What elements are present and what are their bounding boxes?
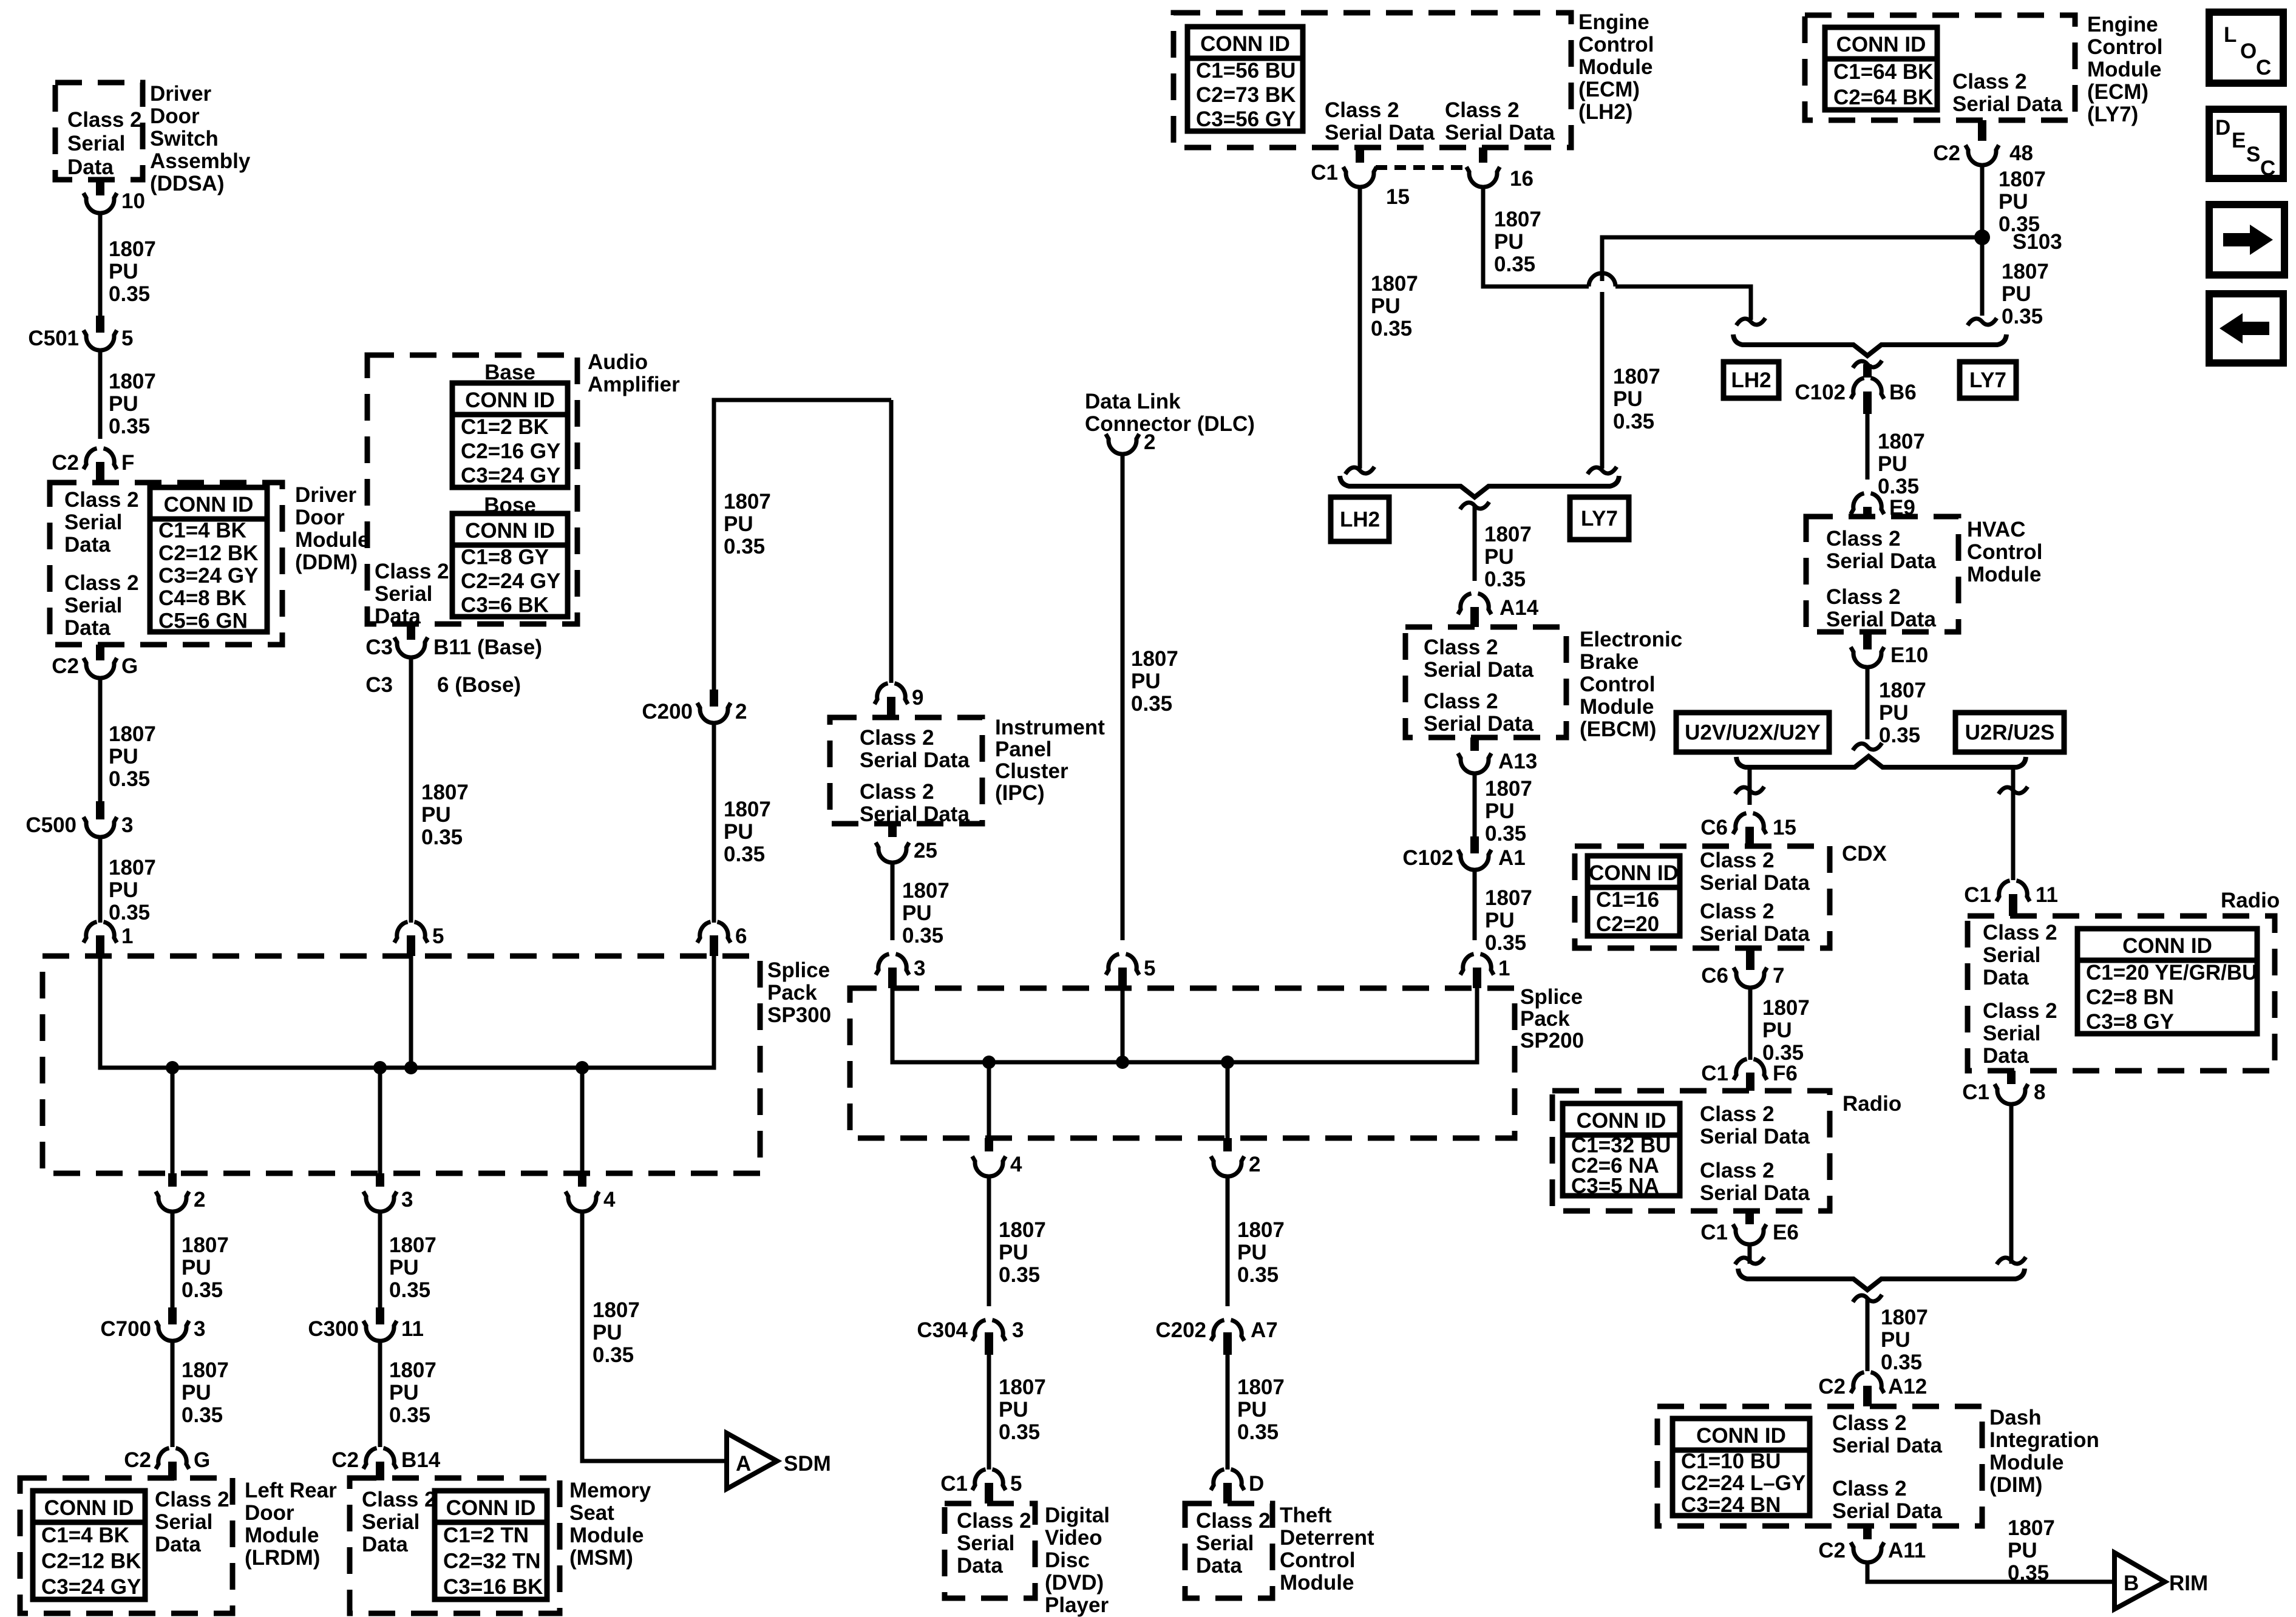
svg-text:0.35: 0.35 bbox=[182, 1278, 223, 1302]
svg-text:Data Link: Data Link bbox=[1085, 390, 1181, 413]
svg-text:1807: 1807 bbox=[1371, 272, 1418, 296]
svg-text:Module: Module bbox=[1989, 1451, 2063, 1474]
wire 1807 PU from DDM G to C500 bbox=[100, 679, 156, 802]
svg-text:Class 2: Class 2 bbox=[1196, 1509, 1271, 1533]
curl below left bus cusp bbox=[1460, 502, 1489, 509]
svg-text:4: 4 bbox=[1010, 1153, 1022, 1176]
wire from radio bus to C6 15 bbox=[1748, 767, 1752, 805]
svg-text:C1=56 BU: C1=56 BU bbox=[1196, 59, 1296, 83]
svg-text:Serial: Serial bbox=[155, 1510, 212, 1534]
svg-text:Pack: Pack bbox=[767, 981, 817, 1005]
svg-text:A11: A11 bbox=[1888, 1539, 1926, 1562]
svg-text:PU: PU bbox=[724, 512, 753, 536]
dashed link between pins 15 and 16 bbox=[1376, 165, 1468, 170]
wire 1807 PU from C202 to Theft Deterrent Module bbox=[1228, 1355, 1285, 1470]
svg-text:Data: Data bbox=[64, 533, 110, 557]
connector C202 pin A7 bbox=[1155, 1318, 1277, 1355]
svg-text:Module: Module bbox=[1280, 1571, 1354, 1595]
wire label 1807 PU above C200 bbox=[724, 490, 771, 558]
svg-text:A12: A12 bbox=[1888, 1375, 1927, 1398]
svg-text:Driver: Driver bbox=[295, 483, 357, 507]
pin 3 of SP300 bbox=[364, 1173, 413, 1212]
svg-text:0.35: 0.35 bbox=[724, 842, 765, 866]
svg-text:C2=24 L–GY: C2=24 L–GY bbox=[1681, 1471, 1805, 1495]
svg-text:3: 3 bbox=[914, 957, 925, 980]
svg-text:C2: C2 bbox=[52, 451, 79, 475]
wire hop over S103 branch bbox=[1589, 273, 1751, 320]
svg-text:C1: C1 bbox=[1964, 883, 1991, 907]
module DVD player bbox=[945, 1503, 1035, 1598]
svg-text:1807: 1807 bbox=[999, 1375, 1046, 1399]
svg-text:1: 1 bbox=[121, 924, 133, 948]
svg-text:PU: PU bbox=[1485, 909, 1515, 932]
svg-text:Cluster: Cluster bbox=[995, 759, 1068, 783]
svg-text:0.35: 0.35 bbox=[1371, 317, 1412, 341]
svg-text:C3=8 GY: C3=8 GY bbox=[2086, 1010, 2174, 1034]
svg-text:PU: PU bbox=[1131, 670, 1161, 693]
svg-text:15: 15 bbox=[1773, 816, 1796, 839]
svg-text:Door: Door bbox=[295, 506, 345, 529]
svg-text:1807: 1807 bbox=[1762, 996, 1810, 1020]
CONN ID table of DDM bbox=[150, 487, 267, 632]
pin 1 of SP300 bbox=[84, 922, 134, 956]
pin 25 of IPC bbox=[876, 824, 937, 863]
svg-text:2: 2 bbox=[1144, 430, 1155, 454]
svg-text:C1=2 TN: C1=2 TN bbox=[443, 1524, 529, 1547]
svg-text:Class 2: Class 2 bbox=[1826, 585, 1901, 609]
svg-text:7: 7 bbox=[1773, 964, 1784, 988]
svg-text:(ECM): (ECM) bbox=[1578, 78, 1640, 101]
pin C2 A11 of DIM bbox=[1818, 1526, 1926, 1562]
svg-text:Serial Data: Serial Data bbox=[1424, 712, 1533, 736]
svg-text:Module: Module bbox=[295, 528, 369, 552]
svg-text:PU: PU bbox=[593, 1321, 622, 1344]
svg-text:1807: 1807 bbox=[999, 1218, 1046, 1242]
svg-text:PU: PU bbox=[1237, 1241, 1267, 1264]
svg-text:1807: 1807 bbox=[1485, 886, 1532, 910]
svg-text:Module: Module bbox=[569, 1524, 644, 1547]
pin 4 of SP200 bbox=[973, 1138, 1023, 1176]
svg-text:C3=6 BK: C3=6 BK bbox=[461, 593, 549, 617]
module CDX bbox=[1575, 846, 1830, 948]
svg-text:3: 3 bbox=[1012, 1318, 1024, 1342]
svg-text:5: 5 bbox=[121, 327, 133, 350]
svg-text:0.35: 0.35 bbox=[1879, 724, 1920, 747]
svg-text:Audio: Audio bbox=[588, 350, 648, 374]
svg-text:C2=12 BK: C2=12 BK bbox=[41, 1550, 141, 1573]
connector C2 pin G of LRDM bbox=[124, 1448, 210, 1480]
svg-text:D: D bbox=[1249, 1472, 1264, 1496]
curl at pin15 wire end bbox=[1345, 467, 1374, 474]
svg-text:5: 5 bbox=[1010, 1472, 1022, 1496]
svg-text:0.35: 0.35 bbox=[724, 535, 765, 558]
svg-text:Serial Data: Serial Data bbox=[1826, 549, 1936, 573]
svg-text:LH2: LH2 bbox=[1731, 368, 1771, 392]
svg-text:C2: C2 bbox=[124, 1448, 151, 1472]
svg-text:LY7: LY7 bbox=[1581, 507, 1618, 531]
svg-text:Serial Data: Serial Data bbox=[1700, 1181, 1810, 1205]
svg-text:PU: PU bbox=[999, 1398, 1028, 1422]
svg-text:(EBCM): (EBCM) bbox=[1580, 717, 1656, 741]
svg-text:CONN ID: CONN ID bbox=[465, 519, 555, 543]
curl at S103 lower wire end bbox=[1968, 318, 1997, 325]
bus brace radio head unit bbox=[1736, 756, 2026, 767]
svg-text:C5=6 GN: C5=6 GN bbox=[158, 609, 248, 632]
svg-text:Class 2: Class 2 bbox=[155, 1488, 229, 1511]
svg-text:1807: 1807 bbox=[421, 781, 469, 804]
connector pin 9 of IPC bbox=[875, 683, 924, 717]
svg-text:PU: PU bbox=[724, 820, 753, 844]
svg-text:Class 2: Class 2 bbox=[1700, 900, 1775, 923]
svg-text:PU: PU bbox=[1881, 1328, 1911, 1352]
pin 4 of SP300 bbox=[566, 1173, 616, 1212]
svg-text:Class 2: Class 2 bbox=[1832, 1411, 1907, 1435]
svg-text:LY7: LY7 bbox=[1969, 368, 2006, 392]
curl at E10 wire end bbox=[1853, 743, 1882, 750]
CONN ID table of DIM bbox=[1673, 1419, 1810, 1517]
wire 1807 PU from C700 to LRDM bbox=[172, 1342, 229, 1447]
pin 10 of DDSA bbox=[84, 180, 145, 213]
pin C2 48 of ECM LY7 bbox=[1933, 120, 2033, 165]
svg-text:Disc: Disc bbox=[1045, 1548, 1090, 1572]
junction dot SP200 at pin4 branch bbox=[982, 1056, 996, 1069]
svg-text:PU: PU bbox=[1484, 545, 1514, 569]
svg-text:0.35: 0.35 bbox=[389, 1403, 430, 1427]
curl at CDX branch top bbox=[1735, 787, 1764, 794]
CONN ID table of Radio (left) bbox=[1563, 1103, 1680, 1198]
svg-text:3: 3 bbox=[401, 1188, 413, 1212]
svg-text:C2: C2 bbox=[52, 654, 79, 678]
svg-text:Class 2: Class 2 bbox=[1983, 921, 2057, 944]
svg-text:CDX: CDX bbox=[1842, 842, 1887, 866]
svg-text:Module: Module bbox=[2087, 58, 2161, 81]
wire 1807 PU from IPC pin 25 to SP200 pin 3 bbox=[892, 864, 949, 947]
connector C1 pin F6 of Radio bbox=[1701, 1059, 1798, 1091]
svg-text:1807: 1807 bbox=[1237, 1218, 1285, 1242]
pin 5 of SP200 bbox=[1106, 954, 1156, 988]
pin C6 7 of CDX bbox=[1701, 948, 1784, 988]
svg-text:E: E bbox=[2232, 129, 2246, 152]
wire 1807 PU from SP300 pin 2 to C700 bbox=[172, 1213, 229, 1307]
wire 1807 PU from HVAC E10 to radio bus bbox=[1867, 668, 1926, 747]
svg-text:Brake: Brake bbox=[1580, 650, 1639, 674]
junction dot SP300 at pin4 branch bbox=[576, 1061, 589, 1074]
curl below right bus cusp bbox=[1853, 361, 1882, 368]
label Data Link Connector (DLC) bbox=[1085, 390, 1255, 436]
svg-text:Control: Control bbox=[1967, 540, 2042, 564]
svg-text:0.35: 0.35 bbox=[109, 901, 150, 924]
svg-text:0.35: 0.35 bbox=[1237, 1263, 1279, 1287]
svg-text:C3=56 GY: C3=56 GY bbox=[1196, 107, 1296, 131]
svg-text:Serial Data: Serial Data bbox=[1445, 121, 1555, 144]
svg-text:E10: E10 bbox=[1890, 643, 1928, 667]
wire 1807 PU from DLC to SP200 pin 5 bbox=[1123, 455, 1178, 940]
svg-text:PU: PU bbox=[1999, 190, 2028, 214]
svg-text:Class 2: Class 2 bbox=[1445, 98, 1520, 122]
svg-text:SP200: SP200 bbox=[1520, 1029, 1584, 1053]
connector C200 pin 2 bbox=[642, 690, 747, 724]
svg-text:0.35: 0.35 bbox=[2002, 305, 2043, 328]
curl below DIM bus cusp bbox=[1853, 1295, 1882, 1302]
connector C304 pin 3 bbox=[917, 1318, 1024, 1355]
svg-text:C6: C6 bbox=[1700, 816, 1728, 839]
svg-text:C102: C102 bbox=[1795, 381, 1846, 404]
module ECM LY7 (Engine Control Module) bbox=[1805, 15, 2075, 120]
svg-text:Class 2: Class 2 bbox=[1325, 98, 1399, 122]
svg-text:PU: PU bbox=[109, 392, 138, 416]
bus brace LH2/LY7 to EBCM bbox=[1340, 476, 1619, 497]
connector C1 pin 5 of DVD player bbox=[940, 1470, 1022, 1503]
svg-text:PU: PU bbox=[1371, 294, 1401, 318]
curl at E6 wire end bbox=[1735, 1257, 1764, 1264]
svg-text:C1: C1 bbox=[1700, 1221, 1728, 1244]
wire 1807 PU from CDX 7 to radio F6 bbox=[1750, 989, 1810, 1065]
svg-text:Module: Module bbox=[1967, 563, 2041, 586]
svg-text:11: 11 bbox=[401, 1317, 424, 1341]
wire 1807 PU from SP300 pin 4 to SDM bbox=[582, 1213, 724, 1461]
svg-text:Class 2: Class 2 bbox=[1832, 1477, 1907, 1500]
SP300 internal bus bbox=[100, 956, 714, 1173]
svg-text:3: 3 bbox=[194, 1317, 205, 1341]
svg-text:Video: Video bbox=[1045, 1526, 1102, 1550]
svg-text:1807: 1807 bbox=[109, 856, 156, 880]
label Splice Pack SP300 bbox=[767, 958, 831, 1027]
svg-text:Class 2: Class 2 bbox=[1700, 1102, 1775, 1126]
CONN ID table of Audio Amplifier (Bose) bbox=[452, 514, 568, 617]
svg-text:Data: Data bbox=[957, 1554, 1003, 1578]
module Radio (right) bbox=[1968, 916, 2275, 1071]
svg-text:Seat: Seat bbox=[569, 1501, 614, 1525]
svg-text:Class 2: Class 2 bbox=[860, 780, 934, 804]
svg-text:PU: PU bbox=[182, 1381, 211, 1405]
wire 1807 PU from C300 to MSM bbox=[380, 1342, 436, 1447]
svg-text:E6: E6 bbox=[1773, 1221, 1799, 1244]
svg-text:PU: PU bbox=[1237, 1398, 1267, 1422]
svg-text:0.35: 0.35 bbox=[999, 1263, 1040, 1287]
svg-text:Engine: Engine bbox=[1578, 10, 1649, 34]
svg-text:Class 2: Class 2 bbox=[67, 108, 142, 132]
svg-text:C: C bbox=[2256, 56, 2271, 80]
svg-text:0.35: 0.35 bbox=[389, 1278, 430, 1302]
svg-text:C1: C1 bbox=[1962, 1080, 1989, 1104]
svg-text:0.35: 0.35 bbox=[109, 415, 150, 438]
bus brace to DIM bbox=[1738, 1269, 2025, 1290]
label box LH2 (right bus) bbox=[1724, 362, 1779, 398]
pin 6 of SP300 bbox=[698, 922, 747, 956]
svg-text:5: 5 bbox=[432, 924, 444, 948]
svg-text:Serial Data: Serial Data bbox=[1700, 871, 1810, 895]
label box LY7 (left bus) bbox=[1570, 497, 1629, 540]
wire 1807 PU from ECM LH2 pin 16 across bbox=[1483, 188, 1589, 286]
svg-text:PU: PU bbox=[182, 1256, 211, 1280]
off-page arrow A to SDM bbox=[727, 1433, 831, 1489]
svg-text:CONN ID: CONN ID bbox=[1696, 1424, 1786, 1448]
pin A13 of EBCM bbox=[1458, 737, 1538, 773]
connector C500 pin 3 bbox=[25, 801, 133, 837]
pin 2 of SP200 bbox=[1211, 1138, 1261, 1176]
label Base bbox=[484, 361, 535, 384]
svg-text:10: 10 bbox=[121, 189, 145, 213]
svg-text:Class 2: Class 2 bbox=[860, 726, 934, 750]
svg-text:0.35: 0.35 bbox=[2008, 1561, 2049, 1585]
splice pack SP200 box bbox=[850, 988, 1515, 1138]
svg-text:Class 2: Class 2 bbox=[1826, 527, 1901, 551]
svg-text:Serial Data: Serial Data bbox=[1424, 658, 1533, 682]
svg-text:Class 2: Class 2 bbox=[1983, 999, 2057, 1023]
svg-text:1807: 1807 bbox=[1878, 430, 1925, 453]
svg-text:1807: 1807 bbox=[389, 1233, 436, 1257]
svg-text:Serial Data: Serial Data bbox=[1826, 608, 1936, 631]
pin B11/6 of Audio Amplifier (C3) bbox=[365, 624, 542, 697]
wire 1807 PU from Audio Amplifier to SP300 pin 5 bbox=[411, 659, 469, 923]
svg-text:C501: C501 bbox=[28, 327, 79, 350]
svg-text:1807: 1807 bbox=[724, 490, 771, 514]
svg-text:1807: 1807 bbox=[389, 1358, 436, 1382]
svg-text:C300: C300 bbox=[308, 1317, 359, 1341]
svg-text:CONN ID: CONN ID bbox=[465, 388, 555, 412]
svg-text:C3=24 BN: C3=24 BN bbox=[1681, 1493, 1781, 1517]
connector C501 pin 5 bbox=[28, 316, 133, 350]
svg-text:1807: 1807 bbox=[1881, 1306, 1928, 1329]
legend box right arrow bbox=[2209, 205, 2284, 275]
svg-text:PU: PU bbox=[1494, 230, 1524, 254]
svg-text:G: G bbox=[194, 1448, 210, 1472]
svg-text:(IPC): (IPC) bbox=[995, 781, 1045, 805]
svg-text:Engine: Engine bbox=[2087, 13, 2158, 36]
svg-text:0.35: 0.35 bbox=[182, 1403, 223, 1427]
label DDM name bbox=[295, 483, 369, 574]
svg-text:C102: C102 bbox=[1402, 846, 1453, 870]
svg-text:C1=2 BK: C1=2 BK bbox=[461, 415, 549, 439]
svg-text:C1=64 BK: C1=64 BK bbox=[1833, 60, 1933, 84]
connector pin A14 of EBCM bbox=[1458, 594, 1539, 627]
SP200 internal bus bbox=[892, 988, 1477, 1138]
svg-text:Module: Module bbox=[1578, 55, 1652, 79]
svg-text:C3=24 GY: C3=24 GY bbox=[41, 1575, 141, 1599]
svg-text:C2=16 GY: C2=16 GY bbox=[461, 439, 560, 463]
svg-text:PU: PU bbox=[1879, 701, 1909, 725]
wire 1807 PU from C501 to DDM C2 pin F bbox=[100, 351, 156, 439]
svg-text:PU: PU bbox=[1878, 452, 1907, 476]
pin 16 of ECM LH2 bbox=[1467, 147, 1533, 191]
CONN ID table of Radio (right) bbox=[2077, 929, 2257, 1034]
label ECM LH2 name bbox=[1578, 10, 1654, 124]
svg-text:0.35: 0.35 bbox=[109, 767, 150, 791]
svg-text:Player: Player bbox=[1045, 1593, 1109, 1617]
svg-text:C3: C3 bbox=[365, 636, 393, 659]
connector C2 pin F of DDM bbox=[52, 449, 134, 483]
svg-text:1807: 1807 bbox=[109, 370, 156, 393]
svg-text:Radio: Radio bbox=[1843, 1092, 1901, 1116]
svg-text:A1: A1 bbox=[1498, 846, 1526, 870]
svg-text:Instrument: Instrument bbox=[995, 716, 1105, 739]
svg-text:U2R/U2S: U2R/U2S bbox=[1965, 721, 2055, 745]
label box U2R/U2S bbox=[1955, 713, 2064, 752]
svg-text:C6: C6 bbox=[1701, 964, 1728, 988]
wire 1807 PU from ECM LY7 pin 48 to S103 bbox=[1982, 166, 2046, 237]
label ECM LY7 name bbox=[2087, 13, 2162, 126]
off-page arrow B to RIM bbox=[2114, 1553, 2208, 1609]
svg-text:Electronic: Electronic bbox=[1580, 628, 1682, 651]
svg-text:1807: 1807 bbox=[1237, 1375, 1285, 1399]
svg-text:RIM: RIM bbox=[2169, 1571, 2208, 1595]
svg-text:Splice: Splice bbox=[1520, 985, 1583, 1009]
svg-text:PU: PU bbox=[1485, 799, 1515, 823]
svg-text:(LH2): (LH2) bbox=[1578, 100, 1632, 124]
svg-text:Data: Data bbox=[1983, 966, 2029, 989]
svg-text:C1: C1 bbox=[1701, 1062, 1728, 1085]
svg-text:1807: 1807 bbox=[2002, 260, 2049, 283]
junction dot SP300 at pin5 entry bbox=[404, 1061, 418, 1074]
svg-text:C4=8 BK: C4=8 BK bbox=[158, 586, 246, 610]
svg-text:C2=73 BK: C2=73 BK bbox=[1196, 83, 1296, 107]
wire 1807 PU from DDSA pin 10 to C501 bbox=[100, 214, 156, 317]
wire from S103 to left branch bbox=[1602, 237, 1982, 281]
connector pin E9 of HVAC bbox=[1851, 493, 1915, 520]
svg-text:Driver: Driver bbox=[150, 82, 212, 106]
svg-text:Control: Control bbox=[1580, 673, 1655, 696]
svg-text:C1=4 BK: C1=4 BK bbox=[41, 1524, 129, 1547]
label EBCM name bbox=[1580, 628, 1682, 741]
svg-text:Data: Data bbox=[362, 1533, 408, 1556]
svg-text:1807: 1807 bbox=[1485, 777, 1532, 801]
svg-text:1807: 1807 bbox=[182, 1358, 229, 1382]
svg-text:Panel: Panel bbox=[995, 737, 1051, 761]
svg-text:CONN ID: CONN ID bbox=[1200, 32, 1290, 56]
svg-text:Class 2: Class 2 bbox=[1424, 690, 1498, 713]
svg-text:C1: C1 bbox=[1311, 161, 1338, 185]
svg-text:1807: 1807 bbox=[593, 1298, 640, 1322]
svg-text:Control: Control bbox=[1578, 33, 1654, 56]
label DVD player name bbox=[1045, 1503, 1110, 1617]
curl at Radio 8 wire end bbox=[1997, 1257, 2026, 1264]
svg-text:Serial Data: Serial Data bbox=[1952, 92, 2062, 116]
svg-text:Serial: Serial bbox=[375, 582, 432, 606]
svg-text:1807: 1807 bbox=[1879, 679, 1926, 702]
svg-text:Door: Door bbox=[245, 1501, 294, 1525]
svg-text:Serial: Serial bbox=[64, 510, 122, 534]
svg-text:Serial: Serial bbox=[1196, 1531, 1254, 1555]
svg-text:PU: PU bbox=[109, 878, 138, 902]
svg-text:Theft: Theft bbox=[1280, 1503, 1332, 1527]
connector C6 pin 15 of CDX bbox=[1700, 813, 1796, 846]
CONN ID table of CDX bbox=[1588, 856, 1680, 936]
svg-text:2: 2 bbox=[735, 700, 747, 724]
svg-text:5: 5 bbox=[1144, 957, 1155, 980]
svg-text:PU: PU bbox=[2008, 1539, 2037, 1562]
module MSM (Memory Seat Module) bbox=[350, 1478, 560, 1613]
svg-text:Serial: Serial bbox=[1983, 1022, 2040, 1045]
svg-text:Serial Data: Serial Data bbox=[1325, 121, 1435, 144]
svg-text:PU: PU bbox=[999, 1241, 1028, 1264]
svg-text:Data: Data bbox=[155, 1533, 201, 1556]
svg-text:PU: PU bbox=[902, 901, 932, 925]
splice pack SP300 box bbox=[42, 956, 760, 1173]
svg-text:B: B bbox=[2124, 1571, 2139, 1595]
svg-text:11: 11 bbox=[2036, 883, 2058, 907]
svg-text:A: A bbox=[736, 1452, 751, 1476]
svg-text:Left Rear: Left Rear bbox=[245, 1479, 337, 1502]
connector C1 pin 11 of Radio (right) bbox=[1964, 805, 2058, 916]
module Radio (left) bbox=[1552, 1091, 1830, 1211]
connector DLC pin 2 bbox=[1106, 430, 1156, 454]
legend box LOC bbox=[2209, 12, 2283, 83]
svg-text:C2: C2 bbox=[1818, 1375, 1846, 1398]
svg-text:0.35: 0.35 bbox=[1484, 568, 1526, 591]
svg-text:B14: B14 bbox=[401, 1448, 441, 1472]
svg-text:PU: PU bbox=[421, 803, 451, 827]
svg-text:Integration: Integration bbox=[1989, 1428, 2099, 1452]
